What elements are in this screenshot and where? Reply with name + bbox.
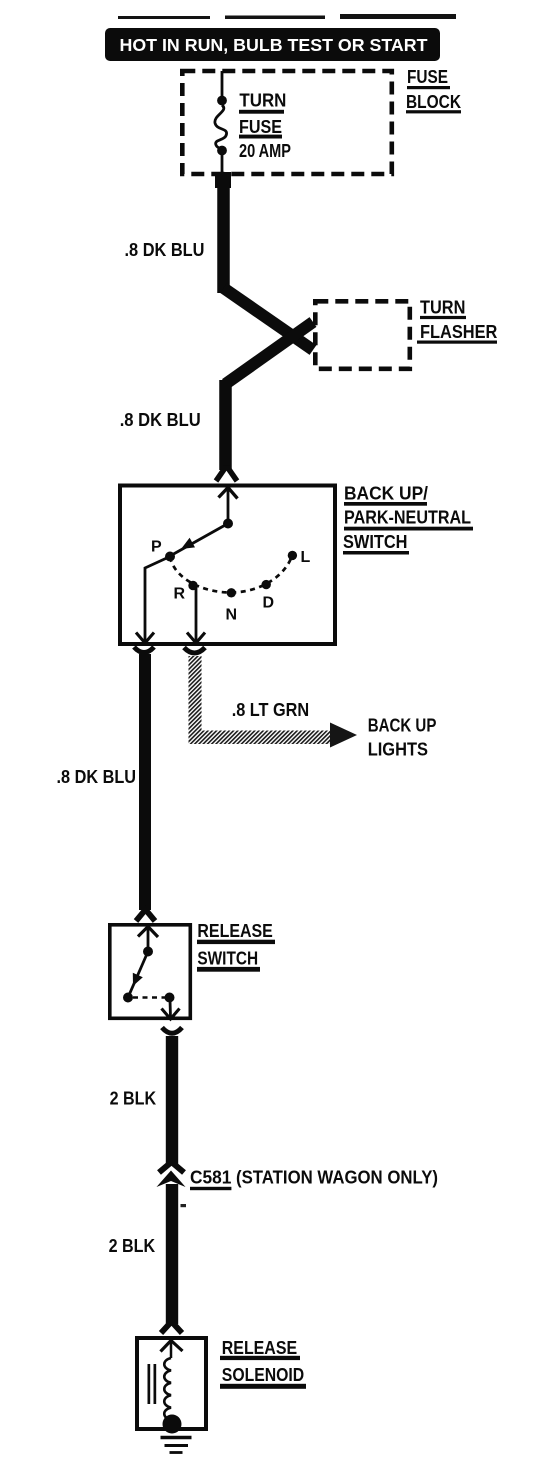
svg-text:P: P	[151, 539, 162, 556]
svg-text:20 AMP: 20 AMP	[239, 141, 291, 161]
svg-text:.8 LT GRN: .8 LT GRN	[232, 700, 310, 720]
svg-text:HOT IN RUN, BULB TEST OR START: HOT IN RUN, BULB TEST OR START	[120, 35, 428, 55]
svg-text:.8 DK BLU: .8 DK BLU	[57, 767, 137, 787]
svg-text:.8 DK BLU: .8 DK BLU	[125, 240, 205, 260]
svg-text:2 BLK: 2 BLK	[109, 1236, 156, 1256]
svg-text:RELEASE: RELEASE	[197, 921, 272, 941]
svg-text:BACK UP/: BACK UP/	[344, 483, 428, 503]
svg-text:C581: C581	[190, 1167, 231, 1187]
svg-text:R: R	[174, 586, 186, 603]
svg-text:SWITCH: SWITCH	[343, 532, 408, 552]
svg-text:D: D	[263, 594, 275, 611]
svg-text:FUSE: FUSE	[239, 117, 282, 137]
svg-text:L: L	[301, 549, 311, 566]
svg-text:TURN: TURN	[239, 91, 286, 111]
svg-text:BACK UP: BACK UP	[368, 715, 437, 735]
svg-text:RELEASE: RELEASE	[222, 1338, 297, 1358]
svg-text:FUSE: FUSE	[407, 67, 448, 87]
svg-text:2 BLK: 2 BLK	[110, 1088, 157, 1108]
svg-text:BLOCK: BLOCK	[406, 92, 461, 112]
svg-text:FLASHER: FLASHER	[420, 322, 497, 342]
svg-text:TURN: TURN	[420, 297, 465, 317]
svg-text:N: N	[226, 607, 238, 624]
svg-text:.8 DK BLU: .8 DK BLU	[120, 410, 201, 430]
svg-text:LIGHTS: LIGHTS	[368, 740, 428, 760]
svg-text:PARK-NEUTRAL: PARK-NEUTRAL	[344, 508, 471, 528]
svg-text:SOLENOID: SOLENOID	[222, 1365, 304, 1385]
svg-text:(STATION WAGON ONLY): (STATION WAGON ONLY)	[236, 1167, 438, 1187]
svg-text:SWITCH: SWITCH	[197, 948, 258, 968]
